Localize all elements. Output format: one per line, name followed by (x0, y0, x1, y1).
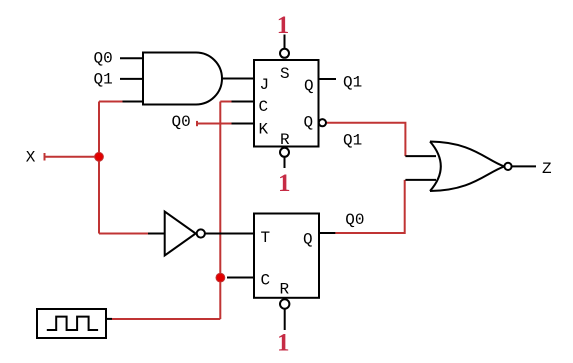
svg-text:Q0: Q0 (345, 211, 364, 229)
svg-text:K: K (259, 121, 269, 139)
svg-text:C: C (261, 272, 271, 290)
svg-text:1: 1 (278, 170, 291, 197)
svg-text:1: 1 (277, 329, 290, 356)
svg-text:Q: Q (303, 231, 313, 249)
svg-text:X: X (26, 149, 36, 167)
svg-text:Q1: Q1 (94, 70, 113, 88)
svg-text:Q: Q (304, 114, 314, 132)
svg-text:Q: Q (304, 77, 314, 95)
svg-text:T: T (261, 229, 271, 247)
svg-text:Q1: Q1 (343, 132, 362, 150)
svg-text:1: 1 (277, 12, 290, 39)
svg-text:R: R (280, 131, 290, 149)
svg-text:J: J (260, 76, 270, 94)
svg-text:S: S (280, 65, 290, 83)
svg-text:R: R (280, 281, 290, 299)
svg-text:Q0: Q0 (94, 50, 113, 68)
svg-text:Z: Z (542, 160, 552, 178)
svg-text:C: C (259, 98, 269, 116)
svg-text:Q0: Q0 (172, 113, 191, 131)
svg-text:Q1: Q1 (343, 74, 362, 92)
